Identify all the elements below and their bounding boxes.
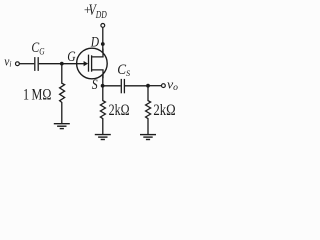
input terminal vi bbox=[16, 62, 20, 66]
wire to vo terminal bbox=[148, 85, 161, 87]
svg-text:S: S bbox=[92, 77, 98, 93]
resistor RG 1 MOhm bbox=[60, 64, 65, 124]
svg-text:1 MΩ: 1 MΩ bbox=[23, 87, 51, 104]
capacitor CS bbox=[121, 79, 124, 93]
output terminal vo bbox=[162, 84, 166, 88]
wire CS to output node bbox=[125, 85, 148, 87]
transistor Q1 source lead bbox=[92, 70, 103, 78]
svg-text:2kΩ: 2kΩ bbox=[109, 102, 130, 119]
supply terminal VDD bbox=[101, 24, 105, 28]
node gate junction bbox=[60, 62, 64, 66]
transistor Q1 channel bar bbox=[91, 55, 93, 71]
capacitor CG bbox=[35, 57, 38, 71]
resistor RS 2kOhm bbox=[100, 86, 105, 135]
ground RL bbox=[140, 135, 156, 140]
svg-text:2kΩ: 2kΩ bbox=[153, 102, 175, 119]
wire vi to CG bbox=[20, 63, 35, 65]
svg-text:G: G bbox=[67, 49, 75, 65]
ground RS bbox=[95, 135, 111, 140]
wire drain to VDD bbox=[102, 27, 104, 52]
transistor Q1 gate bar bbox=[88, 55, 90, 72]
ground RG bbox=[54, 124, 70, 129]
transistor Q1 gate arrow bbox=[84, 61, 89, 66]
wire S to CS bbox=[103, 85, 121, 87]
wire CG to gate bbox=[39, 63, 84, 65]
resistor RL 2kOhm bbox=[146, 86, 151, 135]
transistor Q1 drain lead bbox=[92, 49, 103, 57]
node output junction bbox=[146, 84, 150, 88]
node S junction bbox=[101, 84, 105, 88]
wire source to node S bbox=[102, 75, 104, 86]
transistor Q1 body bbox=[77, 48, 108, 79]
svg-text:D: D bbox=[90, 34, 99, 50]
node D bbox=[101, 42, 105, 46]
